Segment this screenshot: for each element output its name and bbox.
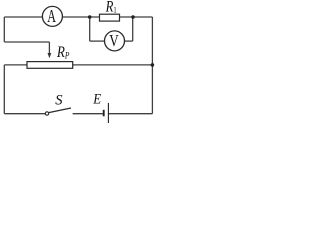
battery E long plate xyxy=(107,103,109,123)
wire slider vertical xyxy=(48,42,50,54)
svg-text:E: E xyxy=(92,90,101,107)
svg-text:A: A xyxy=(47,7,56,27)
wire bottom rail right xyxy=(108,113,152,115)
switch S pivot xyxy=(45,112,48,115)
rheostat RP slider arrowhead xyxy=(48,53,52,58)
wire voltmeter left horizontal xyxy=(90,40,105,42)
ammeter U: circle A xyxy=(42,6,62,26)
wire middle rail right xyxy=(73,64,153,66)
svg-text:S: S xyxy=(55,93,63,109)
node dot right of R1 xyxy=(131,15,135,19)
svg-text:R1: R1 xyxy=(105,0,117,16)
wire upper-left vertical xyxy=(3,17,5,42)
wire top rail right xyxy=(120,16,153,18)
battery E short plate xyxy=(103,110,105,117)
wire right vertical xyxy=(151,17,153,114)
wire lower-left vertical xyxy=(3,65,5,114)
wire voltmeter right horizontal xyxy=(125,40,133,42)
wire bottom rail middle xyxy=(73,113,103,115)
svg-text:V: V xyxy=(109,33,119,51)
switch S lever xyxy=(49,108,71,113)
node dot middle rail right xyxy=(151,63,155,67)
wire bottom rail left xyxy=(4,113,45,115)
wire middle rail left xyxy=(4,64,27,66)
wire top rail middle xyxy=(62,16,99,18)
wire voltmeter right vertical xyxy=(132,17,134,41)
voltmeter U: circle V xyxy=(105,31,125,51)
wire slider feed horizontal xyxy=(4,41,49,43)
svg-text:RP: RP xyxy=(56,44,69,61)
node dot left of R1 xyxy=(88,15,92,19)
resistor R1 body xyxy=(100,14,120,21)
wire top rail left xyxy=(4,16,42,18)
rheostat RP body xyxy=(27,62,73,69)
wire voltmeter left vertical xyxy=(89,17,91,41)
